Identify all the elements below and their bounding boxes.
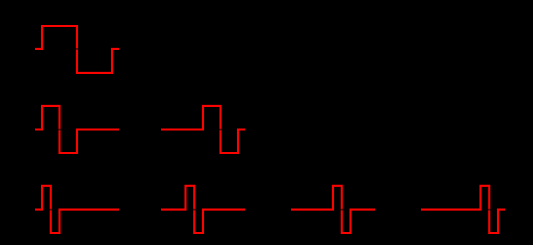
zero-crossing notch row2 wf2 — [219, 129, 222, 131]
waveform psi_2,3 (row 3, pulse in fourth quarter) — [421, 186, 505, 233]
waveform psi_1,1 (row 2, pulse in second half) — [161, 106, 245, 153]
waveform psi_1,0 (row 2, pulse in first half) — [35, 106, 119, 153]
zero-crossing notch row1 — [76, 48, 79, 50]
zero-crossing notch row2 wf1 — [58, 129, 61, 131]
waveform psi_2,1 (row 3, pulse in second quarter) — [161, 186, 245, 233]
waveform psi_0,0 (row 1, one wide pulse) — [35, 26, 119, 73]
zero-crossing notch row3 wf4 — [488, 209, 491, 211]
waveform psi_2,2 (row 3, pulse in third quarter) — [291, 186, 375, 233]
zero-crossing notch row3 wf3 — [340, 209, 343, 211]
zero-crossing notch row3 wf2 — [193, 209, 196, 211]
zero-crossing notch row3 wf1 — [49, 209, 52, 211]
waveform psi_2,0 (row 3, pulse in first quarter) — [35, 186, 119, 233]
